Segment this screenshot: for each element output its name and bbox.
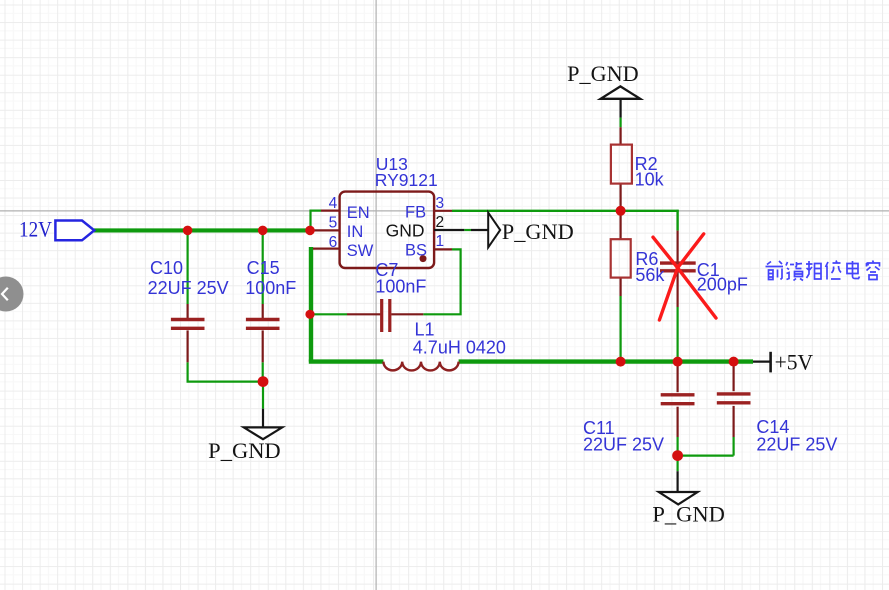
- resistor R6 top stub: [619, 215, 621, 240]
- junction dot SW-C7: [305, 310, 314, 319]
- resistor R6 bottom stub: [619, 278, 621, 296]
- wire C15 bottom to gnd node: [262, 362, 264, 381]
- value R6: [635, 265, 665, 285]
- pin number 6: [329, 234, 338, 251]
- ground P_GND top: [567, 61, 640, 118]
- op-amp U1 none; IC U13 body: [340, 192, 435, 268]
- svg-text:4: 4: [329, 195, 338, 212]
- svg-text:P_GND: P_GND: [502, 219, 574, 244]
- svg-text:IN: IN: [347, 223, 364, 241]
- pin number 4: [329, 195, 338, 212]
- junction dot rail-C14: [729, 357, 739, 367]
- capacitor C10 top stub: [187, 304, 189, 318]
- wire C10 top drop: [187, 230, 189, 304]
- svg-text:4.7uH 0420: 4.7uH 0420: [413, 337, 506, 357]
- capacitor C14 bottom stub: [732, 406, 734, 437]
- label L1: [415, 320, 435, 340]
- svg-text:12V: 12V: [19, 217, 52, 242]
- wire FB to R2/R6 node: [452, 210, 679, 212]
- pin name FB: [405, 203, 426, 221]
- wire gnd node horizontal C11-C14: [678, 455, 734, 457]
- label RY9121: [375, 170, 438, 190]
- pin name IN: [347, 223, 364, 241]
- ground P_GND bottom-right: [652, 471, 725, 526]
- pin number 1: [436, 233, 445, 250]
- value C10: [148, 278, 229, 298]
- value C14: [756, 435, 837, 455]
- capacitor C15 bottom stub: [262, 330, 264, 362]
- net flag P_GND right of pin 2: [488, 213, 574, 248]
- junction dot rail-R6: [616, 357, 626, 367]
- capacitor C1 top stub: [676, 231, 678, 262]
- value C15: [245, 278, 296, 298]
- pin number 2: [436, 214, 445, 231]
- wire node down to C1 top: [676, 210, 678, 231]
- label C15: [247, 258, 280, 278]
- svg-text:22UF 25V: 22UF 25V: [583, 435, 664, 455]
- capacitor C1 plates: [660, 263, 696, 271]
- wire gnd node down (right P_GND): [676, 456, 678, 472]
- inductor L1: [383, 362, 458, 371]
- label C11: [583, 418, 615, 438]
- value C11: [583, 435, 664, 455]
- net flag 12V: [19, 217, 94, 242]
- capacitor C15 plates: [246, 320, 280, 329]
- capacitor C11 plates: [661, 395, 695, 404]
- resistor R2 body: [611, 145, 632, 184]
- svg-text:FB: FB: [405, 203, 426, 221]
- svg-text:GND: GND: [386, 220, 425, 240]
- pin number 3: [436, 195, 445, 212]
- capacitor C14 top stub: [732, 363, 734, 391]
- resistor R6 body: [611, 239, 631, 277]
- label C10: [150, 258, 183, 278]
- wire top P_GND short green: [619, 118, 621, 128]
- pin name SW: [347, 242, 374, 260]
- wire rail left of L1 (thick): [309, 359, 384, 363]
- label C1: [697, 260, 720, 280]
- junction dot 12V-C10: [183, 226, 193, 236]
- svg-text:100nF: 100nF: [375, 277, 426, 297]
- svg-text:3: 3: [436, 195, 445, 212]
- junction dot rail-C11: [673, 357, 683, 367]
- sheet axis vertical line: [375, 0, 377, 590]
- svg-text:+5V: +5V: [775, 350, 814, 375]
- junction dot 12V-C15: [258, 226, 268, 236]
- svg-text:1: 1: [436, 233, 445, 250]
- wire 12V main (thick): [94, 228, 311, 232]
- label C14: [756, 417, 789, 437]
- junction dot C11-C14 gnd: [672, 450, 683, 461]
- svg-text:BS: BS: [405, 241, 427, 259]
- capacitor C7 left stub: [347, 313, 380, 315]
- IC U13 pin 1 stub: [434, 248, 452, 250]
- carousel prev button: [0, 277, 24, 312]
- wire R6 bottom to rail: [619, 296, 621, 362]
- capacitor C10 plates: [171, 320, 205, 329]
- svg-text:2: 2: [436, 214, 445, 231]
- svg-text:56k: 56k: [635, 265, 665, 285]
- pin name GND: [386, 220, 425, 240]
- svg-text:C10: C10: [150, 258, 183, 278]
- net flag +5V: [753, 350, 813, 375]
- wire rail right of L1 (thick): [459, 359, 753, 363]
- IC U13 pin 4 stub: [321, 210, 340, 212]
- capacitor C14 plates: [717, 394, 751, 403]
- pin name BS: [405, 241, 427, 259]
- pin name EN: [347, 204, 370, 222]
- resistor R2 top stub: [619, 127, 621, 144]
- deletion cross over C1: [653, 234, 716, 320]
- svg-text:SW: SW: [347, 242, 374, 260]
- label U13: [376, 154, 408, 174]
- wire C15 top drop: [262, 230, 264, 304]
- IC U13 pin 5 stub: [310, 229, 340, 231]
- IC U13 BS dot: [420, 255, 427, 262]
- capacitor C7 plates: [382, 299, 390, 332]
- value R2: [635, 170, 665, 190]
- svg-text:P_GND: P_GND: [208, 438, 281, 463]
- wire C10 bottom to gnd node: [188, 362, 263, 381]
- wire C7 right to BS elbow: [423, 249, 460, 314]
- IC U13 pin 3 stub: [434, 210, 452, 212]
- ground P_GND bottom-left: [208, 409, 282, 463]
- IC U13 pin 2 black stub: [434, 229, 488, 231]
- svg-text:5: 5: [329, 214, 338, 231]
- capacitor C11 bottom stub: [676, 407, 678, 437]
- svg-text:C15: C15: [247, 258, 280, 278]
- svg-text:22UF 25V: 22UF 25V: [756, 435, 837, 455]
- resistor R2 bottom stub: [619, 184, 621, 207]
- capacitor C7 right stub: [391, 313, 423, 315]
- svg-text:P_GND: P_GND: [652, 501, 725, 526]
- junction dot 12V-IN: [305, 226, 315, 236]
- wire EN tie from IN node up to pin 4: [311, 211, 322, 231]
- value C1: [697, 275, 748, 295]
- svg-text:10k: 10k: [635, 170, 665, 190]
- svg-text:6: 6: [329, 234, 338, 251]
- svg-text:100nF: 100nF: [245, 278, 296, 298]
- label C7: [375, 260, 398, 280]
- label R2: [635, 154, 658, 174]
- junction dot FB-R2-R6: [616, 206, 626, 216]
- svg-text:22UF 25V: 22UF 25V: [148, 278, 229, 298]
- wire C1 bottom to rail: [676, 307, 678, 362]
- capacitor C15 top stub: [262, 304, 264, 318]
- capacitor C1 bottom stub: [676, 272, 678, 307]
- svg-text:EN: EN: [347, 204, 370, 222]
- capacitor C10 bottom stub: [187, 330, 189, 362]
- note text 前馈相位电容 (drawn strokes): [766, 261, 880, 281]
- wire gnd node down (left P_GND): [262, 382, 264, 409]
- wire SW node to C7 left: [310, 313, 347, 315]
- value C7: [375, 277, 426, 297]
- svg-text:P_GND: P_GND: [567, 61, 639, 86]
- sheet axis horizontal line: [0, 210, 889, 212]
- svg-text:200pF: 200pF: [697, 275, 748, 295]
- IC U13 pin 6 stub: [313, 248, 340, 250]
- label R6: [635, 249, 658, 269]
- wire C14 bottom to gnd node: [732, 437, 734, 456]
- value L1: [413, 337, 506, 357]
- pin number 5: [329, 214, 338, 231]
- wire SW vertical (thick): [309, 247, 313, 362]
- capacitor C11 top stub: [676, 363, 678, 392]
- wire GND pin short green: [464, 229, 471, 231]
- junction dot C10-C15 gnd: [258, 376, 269, 387]
- wire C11 bottom to gnd node: [676, 437, 678, 456]
- svg-text:RY9121: RY9121: [375, 170, 438, 190]
